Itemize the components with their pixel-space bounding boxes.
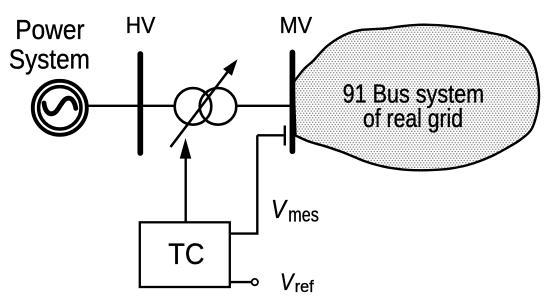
bus MV (290, 53, 296, 152)
wire: transformer to MV bus (236, 105, 292, 107)
blob: 91 bus system cloud (294, 25, 540, 171)
transformer T1: secondary winding (200, 88, 237, 125)
transformer T1: primary winding (175, 88, 212, 125)
AC source G1: inner circle (39, 87, 81, 129)
svg-text:MV: MV (280, 12, 313, 38)
bus HV (137, 54, 143, 153)
TC box (140, 222, 230, 287)
control arrow: TC to transformer stem (184, 155, 186, 222)
wire: Vref into TC box (230, 281, 251, 283)
tap tick on MV bus for Vmes (284, 126, 286, 146)
svg-text:ref: ref (295, 278, 314, 296)
svg-text:HV: HV (126, 12, 156, 38)
wire: Vmes horizontal from tick (257, 134, 284, 136)
svg-text:Power: Power (15, 14, 84, 45)
svg-text:TC: TC (168, 238, 204, 271)
svg-text:V: V (271, 194, 288, 224)
transformer T1: tap-changer diagonal arrow line (171, 69, 231, 147)
AC source G1: outer circle (33, 81, 87, 135)
svg-text:System: System (9, 44, 90, 75)
svg-text:mes: mes (288, 204, 319, 226)
control arrow: head (180, 138, 192, 159)
svg-text:of real grid: of real grid (363, 105, 463, 133)
wire: source to HV bus (87, 105, 139, 107)
transformer T1: tap-changer arrowhead (223, 59, 237, 76)
AC source G1: sine wave (44, 98, 76, 114)
wire: HV bus to transformer (140, 105, 176, 107)
wire: Vmes vertical down (256, 135, 258, 233)
terminal: Vref open circle (252, 279, 258, 285)
wire: Vmes into TC box (230, 232, 259, 234)
svg-text:V: V (280, 269, 295, 296)
